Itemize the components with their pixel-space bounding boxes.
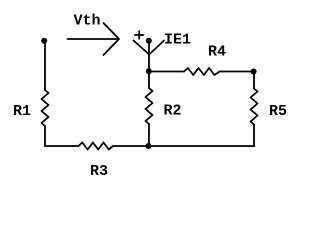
wire middle vertical middle segment — [148, 72, 150, 89]
svg-text:R5: R5 — [269, 103, 287, 120]
svg-text:R3: R3 — [90, 163, 108, 180]
wire right vertical upper — [253, 72, 255, 89]
resistor R2 — [146, 88, 153, 124]
wire right vertical lower — [253, 125, 255, 147]
resistor R4 — [184, 68, 220, 75]
svg-text:R2: R2 — [164, 103, 182, 120]
node corner top-right dot — [251, 69, 257, 75]
arrow Vth — [68, 23, 120, 55]
wire bottom left segment — [45, 145, 78, 147]
wire bottom right segment — [114, 145, 254, 147]
wire top horizontal right segment — [220, 71, 254, 73]
resistor R1 — [42, 90, 49, 126]
wire left vertical upper — [44, 41, 46, 90]
arrow IE1 current arrowhead — [134, 41, 165, 55]
label + (polarity mark) — [135, 31, 144, 39]
svg-text:Vth: Vth — [74, 13, 101, 30]
node junction bottom dot — [146, 143, 152, 149]
node left terminal dot — [41, 38, 47, 44]
svg-text:IE1: IE1 — [164, 32, 191, 49]
node top terminal dot — [146, 38, 152, 44]
wire middle vertical upper — [148, 41, 150, 72]
resistor R5 — [251, 89, 258, 125]
svg-text:R4: R4 — [208, 44, 226, 61]
svg-text:R1: R1 — [13, 103, 31, 120]
wire middle vertical lower — [148, 124, 150, 146]
node junction middle dot — [146, 68, 152, 74]
wire top horizontal left segment — [149, 71, 184, 73]
wire left vertical lower — [44, 126, 46, 146]
resistor R3 — [78, 143, 113, 150]
